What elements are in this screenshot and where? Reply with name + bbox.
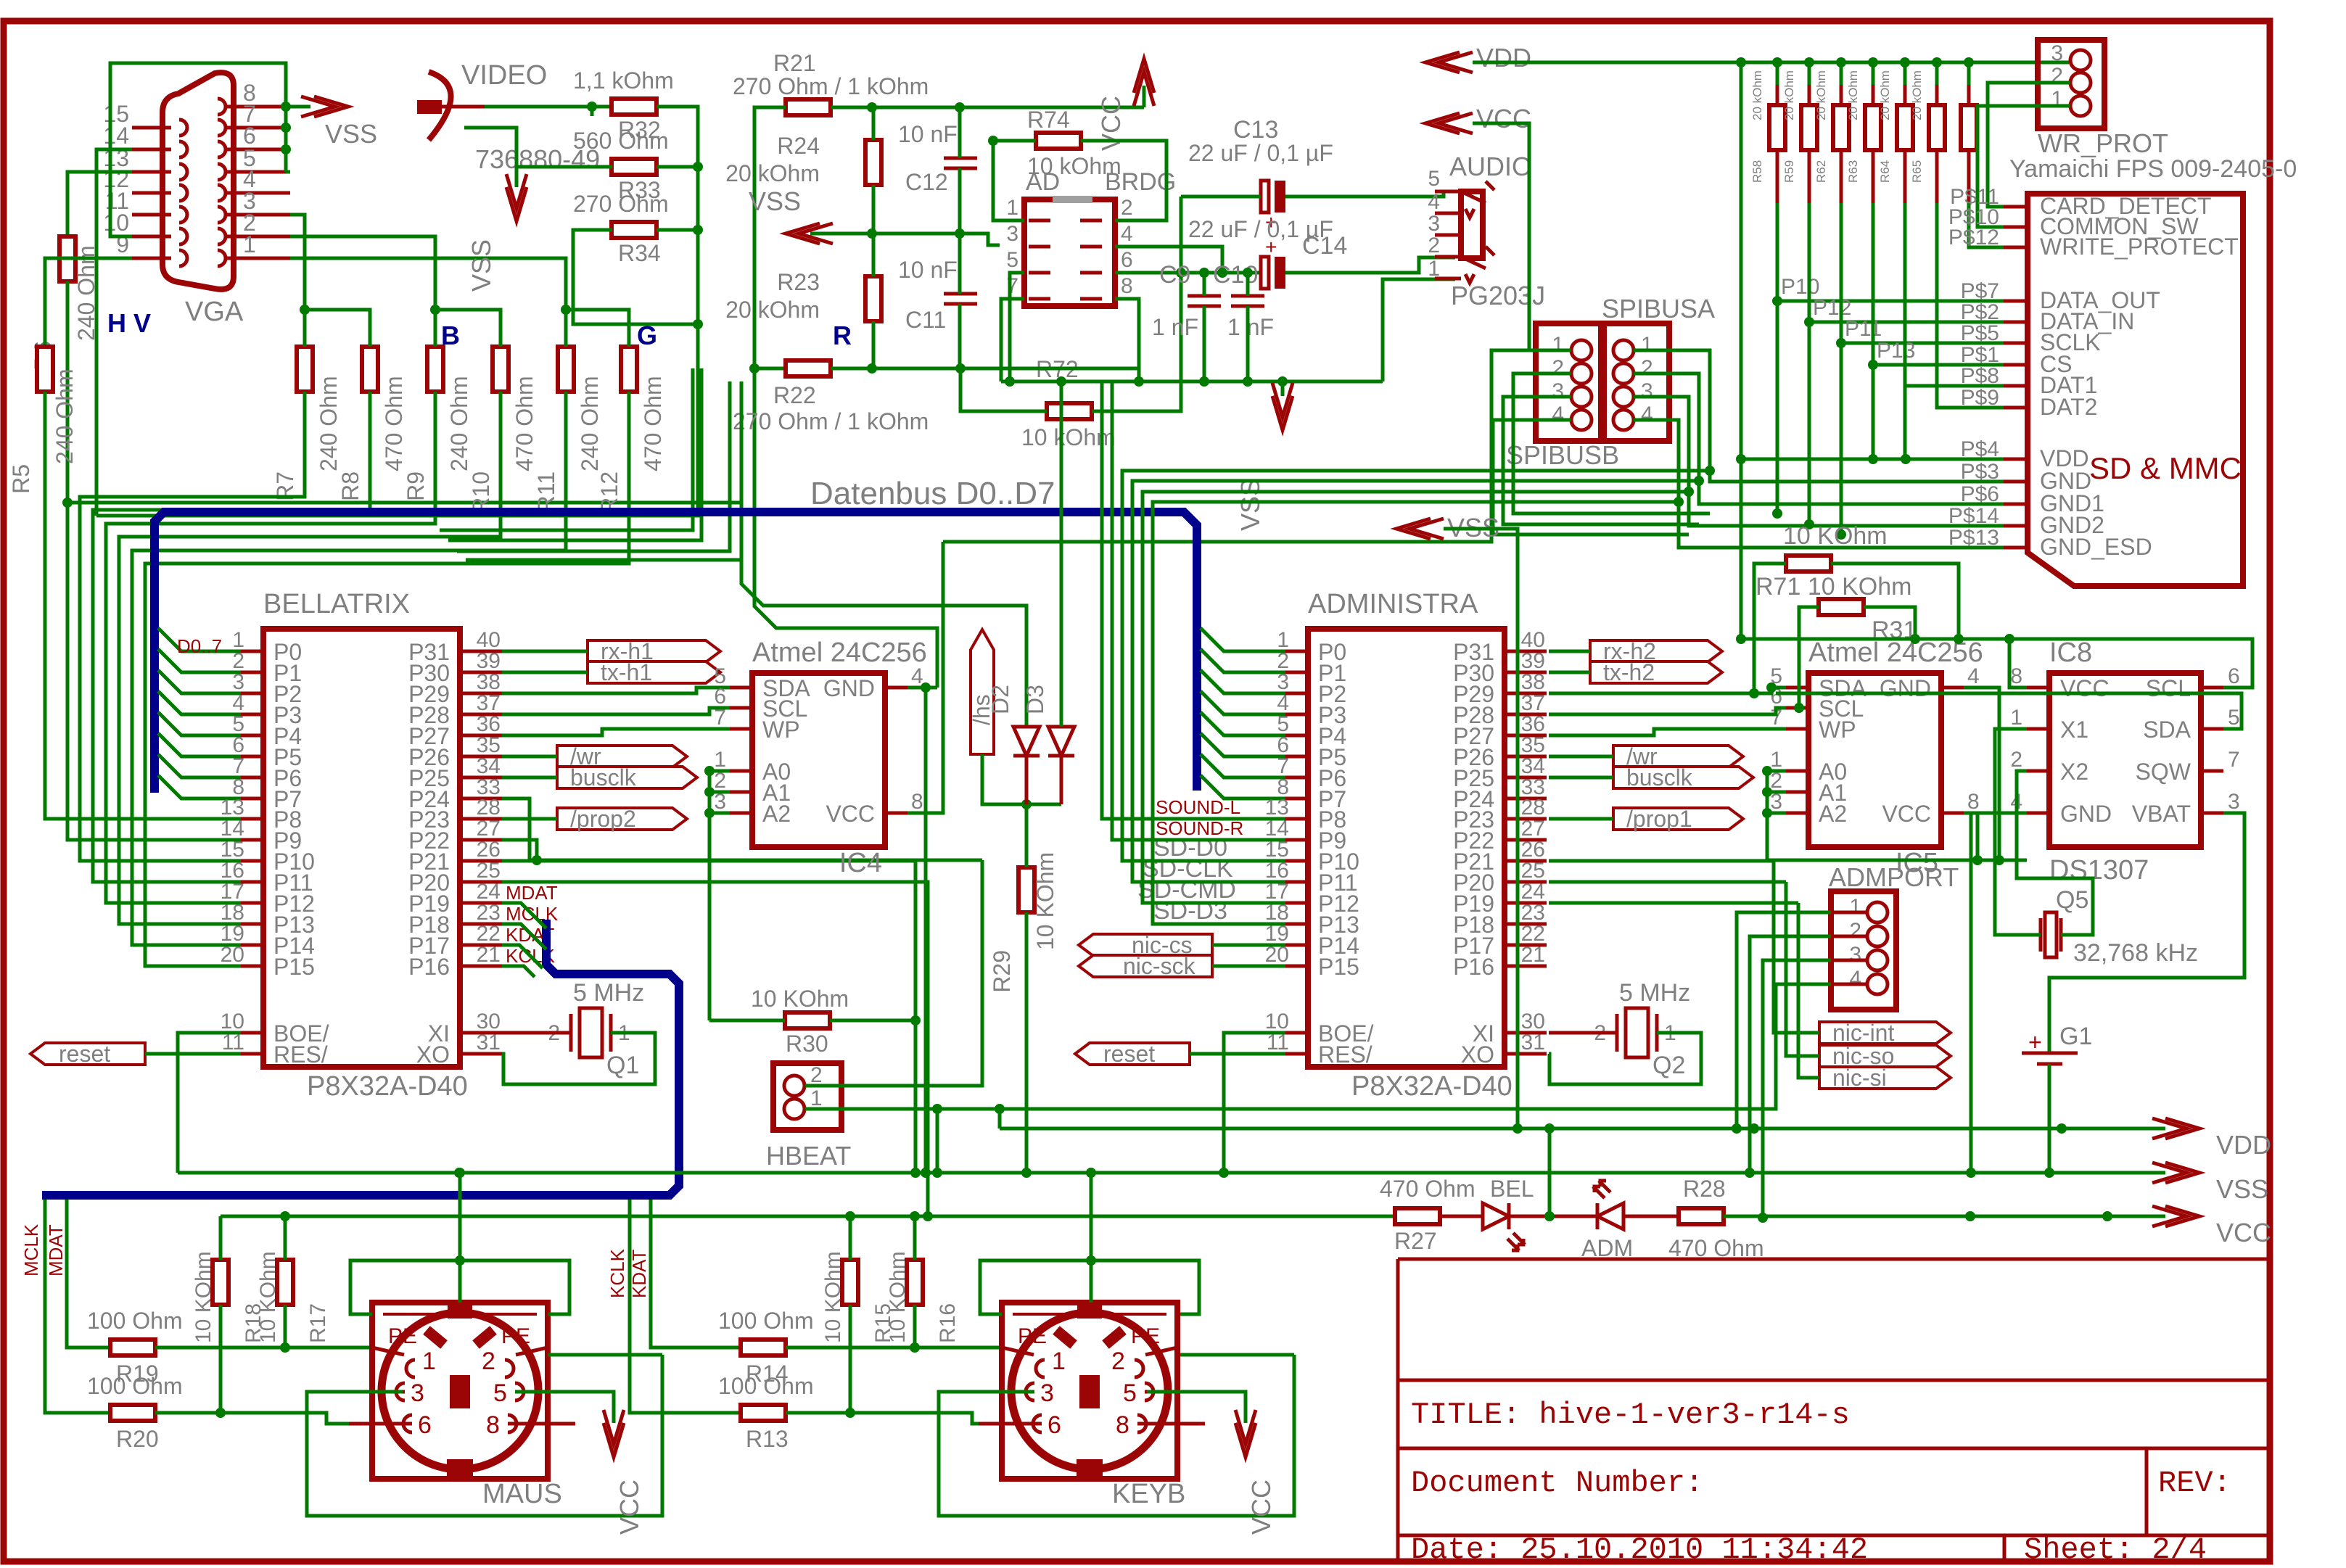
flag /wr A [1613,746,1743,767]
wire R71 right [1831,564,1959,639]
svg-text:22 uF / 0,1 µF: 22 uF / 0,1 µF [1188,216,1333,242]
svg-text:20 kOhm: 20 kOhm [1878,70,1892,120]
junction [867,228,877,239]
wire R15 top [849,1216,852,1260]
VGA right pins 8-1 [226,105,290,109]
svg-text:1,1 kOhm: 1,1 kOhm [573,67,674,94]
svg-text:/prop1: /prop1 [1626,806,1692,832]
svg-text:270 Ohm / 1 kOhm: 270 Ohm / 1 kOhm [733,408,929,434]
svg-text:2: 2 [1428,234,1440,257]
wire ladder to chip [145,392,629,966]
junction [1243,268,1253,278]
svg-text:3: 3 [2051,41,2063,65]
flag reset left [30,1043,145,1065]
junction [1705,466,1715,476]
wire ladder to chip [80,392,305,861]
svg-text:reset: reset [59,1041,110,1067]
svg-text:PE: PE [1018,1324,1047,1348]
resistor R64 [1897,105,1913,150]
junction [532,855,542,865]
svg-text:1: 1 [2010,706,2022,730]
junction [1199,268,1209,278]
svg-text:VCC: VCC [826,801,875,827]
svg-text:10 KOhm: 10 KOhm [1032,852,1058,950]
junction [281,144,291,154]
svg-text:270 Ohm / 1 kOhm: 270 Ohm / 1 kOhm [733,73,929,99]
svg-text:P16: P16 [1453,954,1494,980]
VGA pin arcs [179,99,226,266]
svg-text:TITLE: hive-1-ver3-r14-s: TITLE: hive-1-ver3-r14-s [1411,1398,1850,1432]
svg-text:10 KOhm: 10 KOhm [886,1251,910,1343]
wire pin9 to R5 [45,258,132,347]
svg-text:C12: C12 [905,169,948,195]
flag reset A [1075,1043,1190,1065]
supply arrow VCC right [2152,1206,2199,1226]
wire R6 down to D2 [67,281,1026,727]
junction [1762,787,1772,797]
svg-text:470 Ohm: 470 Ohm [640,376,666,471]
junction [1758,1213,1768,1223]
svg-text:2: 2 [2010,748,2022,772]
wire pin5 left [1010,273,1024,381]
connector MAUS mini-DIN [372,1303,548,1479]
wire IC4 A pins tie [709,771,730,1020]
svg-text:6: 6 [418,1411,432,1439]
resistor R23 [865,276,881,321]
svg-text:PE: PE [388,1324,417,1348]
junction [1762,766,1772,776]
junction [955,363,966,374]
svg-text:SOUND-L: SOUND-L [1156,796,1240,818]
svg-text:1: 1 [1052,1348,1066,1375]
svg-text:Q1: Q1 [606,1052,639,1079]
wire R20 right to MAUS [155,1413,372,1424]
wire P22 to 1186 [502,840,537,860]
resistor R17 [277,1260,293,1305]
junction [867,363,877,374]
resistor R14 [741,1340,786,1356]
bus Datenbus D0..D7 [155,512,1197,793]
svg-text:A2: A2 [1819,801,1847,827]
svg-text:AUDIO: AUDIO [1449,152,1532,181]
wire R64 to P$8 [1905,203,2004,386]
svg-text:VSS: VSS [325,119,377,149]
svg-text:VCC: VCC [1246,1480,1276,1535]
svg-text:470 Ohm: 470 Ohm [511,376,538,471]
junction [281,102,291,112]
wire P31 flag [502,650,588,653]
wire P24 long down [502,799,982,860]
flag nic-sck [1079,955,1212,977]
svg-text:REV:: REV: [2158,1466,2231,1501]
svg-text:470 Ohm: 470 Ohm [381,376,407,471]
capacitor C9 [1188,296,1221,306]
wire R72 right [1092,197,1181,411]
svg-text:WRITE_PROTECT: WRITE_PROTECT [2040,234,2239,260]
junction [1005,376,1015,387]
wire R31 right [1864,607,1915,639]
junction [910,1211,920,1221]
svg-text:R5: R5 [8,464,34,494]
flag /wr [557,746,687,767]
junction [1056,376,1066,387]
svg-text:DAT2: DAT2 [2040,394,2097,420]
junction [2057,1123,2067,1134]
svg-text:A2: A2 [762,801,791,827]
svg-text:P$9: P$9 [1961,386,1999,410]
AD BRDG inner pins [1029,220,1102,299]
resistor R28 [1679,1208,1724,1224]
diode D3 [1048,727,1074,804]
wire R34 right [657,228,698,232]
IC IC4 Atmel 24C256 [752,673,885,847]
svg-text:R: R [833,321,852,350]
wire C13 right [1285,191,1455,197]
junction [455,1255,465,1266]
wire pin4 right [1115,247,1222,273]
svg-text:P13: P13 [1877,339,1915,363]
supply arrow VCC down (KEYB) [1235,1410,1256,1457]
resistor R71 [1786,556,1831,572]
svg-text:3: 3 [1006,222,1018,246]
IC IC5 Atmel 24C256 [1808,673,1941,847]
wire VSS rail bottom [178,1171,2165,1175]
junction [1772,57,1782,67]
svg-text:3: 3 [1040,1379,1054,1407]
ADMPORT pin stubs [1831,912,1867,984]
capacitor C10 [1231,296,1264,306]
svg-text:BELLATRIX: BELLATRIX [263,589,410,619]
svg-text:1: 1 [1849,895,1861,919]
wire R16 bottom [913,1305,917,1348]
svg-text:R16: R16 [936,1303,960,1343]
wire IC5 A pins [1767,771,1977,860]
resistor R15 [842,1260,858,1305]
svg-text:WR_PROT: WR_PROT [2038,128,2168,158]
junction [430,305,440,315]
wire col2626 down [1903,386,1907,459]
resistor R29 [1018,867,1034,912]
MAUS pin leads [337,1348,583,1424]
resistor R13 [741,1405,786,1421]
wire audio bottom rail [960,367,1139,371]
crystal Q2 [1617,1014,1657,1052]
svg-text:10 KOhm: 10 KOhm [751,986,849,1012]
flag /hs [971,630,994,754]
flag tx-h2 [1590,661,1722,683]
resistor R65 [1929,105,1945,150]
junction [1219,1168,1229,1178]
junction [1745,1168,1755,1178]
connector SPIBUSA [1604,323,1669,441]
wire ladder to chip [106,392,435,903]
junction [1762,808,1772,818]
wire pin6 [286,148,290,152]
svg-text:XO: XO [1461,1041,1494,1068]
resistor R27 [1395,1208,1440,1224]
junction [2044,1168,2054,1178]
wire pin3 to B [290,215,305,310]
resistor R7 [297,347,313,392]
junction [2004,634,2014,644]
crystal Q1 [571,1014,611,1052]
junction [455,1168,465,1178]
supply arrow VSS left (mid) [1396,519,1444,539]
svg-text:20 kOhm: 20 kOhm [1750,70,1764,120]
wire R74 right / pin2 [1081,141,1166,220]
svg-text:470 Ohm: 470 Ohm [1380,1176,1475,1202]
svg-text:R9: R9 [403,471,429,501]
svg-text:/prop2: /prop2 [570,806,636,832]
svg-text:6: 6 [2228,664,2240,688]
resistor R19 [110,1340,155,1356]
svg-text:R28: R28 [1683,1176,1726,1202]
wire IC8 VCC left [2009,639,2027,688]
svg-text:BEL: BEL [1490,1176,1534,1202]
svg-text:3: 3 [1641,379,1653,403]
svg-text:10 KOhm: 10 KOhm [256,1251,280,1343]
svg-text:Date: 25.10.2010 11:34:42: Date: 25.10.2010 11:34:42 [1411,1532,1868,1567]
wire R24 bottom [872,185,876,234]
svg-text:R34: R34 [618,240,661,266]
svg-text:Document Number:: Document Number: [1411,1466,1703,1501]
wire resistor pair top [566,310,629,347]
svg-text:MAUS: MAUS [482,1479,562,1509]
IC IC8 DS1307 [2049,673,2201,847]
wire video shield down [464,128,516,187]
junction [704,787,715,797]
wire P20 down [502,882,928,1216]
junction [1217,268,1227,278]
bus stubs ADMINISTRA [1201,628,1285,799]
svg-text:5: 5 [1006,248,1018,272]
capacitor C11 [944,294,977,304]
wire pin7 [286,126,290,130]
wire pin13 to R6 [67,172,132,236]
svg-text:G1: G1 [2059,1023,2092,1050]
svg-text:IC4: IC4 [839,848,882,878]
junction [1804,519,1814,529]
MAUS pin marks [396,1360,524,1432]
svg-text:DS1307: DS1307 [2049,855,2149,886]
bus2 stubs [502,903,546,977]
svg-text:1: 1 [1552,333,1564,357]
junction [932,1104,942,1114]
svg-text:R62: R62 [1814,160,1828,183]
junction [1544,1123,1555,1134]
wire G1 bottom [2048,1064,2051,1173]
wire ladder to chip [93,392,370,882]
wire nic-so [1786,882,1819,1056]
resistor R11 [558,347,574,392]
svg-text:SD & MMC: SD & MMC [2089,451,2242,485]
wire BOE A to VSS rail [1224,1033,1285,1173]
svg-text:8: 8 [1116,1411,1129,1439]
svg-text:R27: R27 [1394,1228,1437,1254]
resistor R24 [865,140,881,185]
VGA left pins 15-9 [132,126,171,130]
svg-text:2: 2 [1641,356,1653,380]
svg-text:2: 2 [810,1063,823,1087]
svg-text:20 kOhm: 20 kOhm [1846,70,1860,120]
connector SPIBUSB [1536,323,1601,441]
wire VSS mid [1444,529,1518,1128]
resistor R59 [1801,105,1817,150]
junction [1868,57,1878,67]
wire HBEAT pin1 [805,1109,937,1173]
wire P31 flag A [1549,650,1590,653]
svg-text:32,768 kHz: 32,768 kHz [2073,939,2198,967]
supply arrow VSS left (audio) [786,223,833,244]
svg-text:R21: R21 [773,50,816,76]
junction [923,1211,933,1221]
wire R28 right to VCC arrow [1724,1215,2165,1218]
diode D2 [1013,727,1040,804]
junction [1964,57,1974,67]
svg-text:8: 8 [1967,790,1980,814]
resistor R5 [37,347,53,392]
wire Q2 loop [1549,1033,1701,1084]
wire R30 left [709,1019,785,1023]
LED BEL [1440,1203,1549,1229]
svg-text:3: 3 [1849,943,1861,967]
wire P25 flag [502,776,557,780]
svg-text:RES/: RES/ [1318,1041,1372,1068]
svg-text:VCC: VCC [2060,675,2110,701]
junction [1736,634,1746,644]
svg-text:R20: R20 [116,1426,159,1452]
title block outline [1398,1259,2270,1561]
crystal Q5 [2041,918,2061,952]
svg-text:P$8: P$8 [1961,364,1999,388]
svg-text:2: 2 [1552,356,1564,380]
wire combiner c [457,381,730,551]
svg-text:5: 5 [1428,167,1440,191]
wire pin7 down [1001,299,1024,381]
flag rx-h1 [588,640,720,662]
bus stubs BELLATRIX [158,628,241,799]
junction [1804,317,1814,327]
LED ADM [1549,1203,1679,1229]
svg-text:B: B [441,321,460,350]
wire reset [145,1052,241,1056]
junction [1021,799,1032,809]
junction [1794,703,1804,713]
svg-text:R24: R24 [777,133,820,159]
svg-text:Q2: Q2 [1653,1052,1685,1079]
wire R30 right [830,1019,915,1023]
wire R59 to P$2 [1809,203,2004,322]
wire WR_PROT pin1 [1977,106,2070,227]
wire R14 right to KEYB [786,1346,1002,1350]
svg-text:VDD: VDD [2216,1130,2271,1160]
resistor R58 [1769,105,1785,150]
wire P30 flag A [1549,671,1590,674]
svg-text:R23: R23 [777,269,820,295]
resistor R74 [1036,133,1081,149]
wire pin2 to G [290,236,435,310]
junction [704,808,715,818]
junction [988,136,998,146]
wire R15 bottom [849,1305,852,1413]
resistor R34 [612,222,657,238]
svg-text:240 Ohm: 240 Ohm [316,376,342,471]
wire R21 right rail [831,106,1144,110]
svg-text:R74: R74 [1027,107,1070,133]
junction [693,319,703,329]
wire pin1 to R [290,258,566,310]
wire P19A [1549,901,1798,905]
wire C14 left [1221,271,1225,275]
svg-text:31: 31 [1521,1031,1545,1055]
junction [932,1168,942,1178]
svg-text:1 nF: 1 nF [1152,314,1198,340]
supply arrow VSS right [290,105,310,109]
wire MAUS pin2 [548,1353,662,1357]
junction [1772,296,1782,306]
svg-text:21: 21 [1521,943,1545,967]
wire I2C SCL top rail [1741,639,2252,688]
svg-text:20 kOhm: 20 kOhm [1814,70,1828,120]
resistor R6 [59,236,75,281]
svg-text:ADM: ADM [1581,1235,1633,1261]
wire to P9 row [67,503,241,840]
junction [1134,376,1144,387]
svg-text:C9: C9 [1159,261,1190,289]
wire P23 flag [502,817,557,821]
wire R21 left down [754,107,786,368]
svg-text:4: 4 [1641,403,1653,426]
wire col2582 down [1872,365,1875,459]
wire KEYB shield to VSS [1090,1173,1093,1303]
svg-text:270 Ohm: 270 Ohm [573,191,669,217]
junction [995,1104,1005,1114]
svg-text:3: 3 [1428,212,1440,236]
svg-text:VCC: VCC [1882,801,1931,827]
svg-text:10 KOhm: 10 KOhm [1783,522,1888,550]
junction [1694,476,1704,486]
svg-text:R58: R58 [1750,160,1764,183]
svg-text:10 nF: 10 nF [898,121,958,147]
junction [1277,376,1288,387]
svg-text:2: 2 [1849,919,1861,943]
junction [910,1015,921,1026]
wire col2450 down [1776,301,1779,513]
svg-text:X2: X2 [2060,759,2088,785]
junction [845,1408,855,1418]
svg-text:R63: R63 [1846,160,1860,183]
svg-text:3: 3 [1552,379,1564,403]
svg-text:SDA: SDA [2143,717,2191,743]
svg-text:P$5: P$5 [1961,321,1999,345]
svg-text:R10: R10 [468,471,494,514]
wire combiner d [466,381,741,560]
wire KEYB pin2 [1180,1353,1294,1357]
junction [280,1211,290,1221]
svg-text:100 Ohm: 100 Ohm [87,1308,183,1334]
wire R62 to P$5 [1841,203,2004,343]
svg-text:R30: R30 [786,1031,828,1057]
resistor R31 [1819,599,1864,615]
wire IC4 VCC up [907,542,943,813]
connector KEYB mini-DIN [1002,1303,1177,1479]
svg-text:8: 8 [1121,274,1133,298]
wire R29 top [1025,804,1029,867]
svg-text:10 nF: 10 nF [898,257,958,283]
svg-text:4: 4 [1428,190,1440,214]
junction [1994,855,2004,865]
wire col2538 down [1840,343,1843,535]
